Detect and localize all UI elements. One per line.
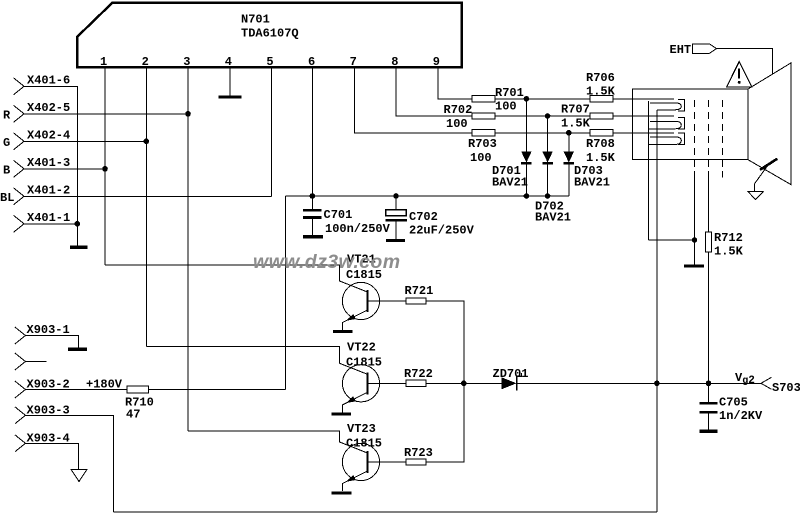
capacitor C702 (electrolytic) bbox=[386, 196, 475, 239]
resistor R710 bbox=[127, 386, 148, 393]
junction G1 link bbox=[692, 237, 698, 243]
resistor R708 bbox=[590, 130, 613, 136]
svg-text:R707: R707 bbox=[561, 103, 590, 117]
svg-text:8: 8 bbox=[391, 55, 398, 69]
junction rail/pin6 bbox=[310, 193, 316, 199]
junction Vg2/heater-b bbox=[654, 381, 660, 387]
resistor R712 bbox=[705, 232, 711, 252]
connector X903-4 bbox=[15, 435, 26, 452]
connector S703 bbox=[761, 377, 772, 389]
wire pin8 down bbox=[396, 67, 472, 116]
wire B row bbox=[24, 168, 105, 170]
wire row1 mid bbox=[495, 98, 590, 100]
wire R721 to bus bbox=[426, 301, 464, 383]
connector X903-3 bbox=[15, 407, 26, 424]
svg-text:6: 6 bbox=[308, 55, 315, 69]
svg-text:22uF/250V: 22uF/250V bbox=[409, 224, 475, 238]
svg-text:1.5K: 1.5K bbox=[586, 85, 616, 99]
transistor VT21 C1815 bbox=[342, 253, 382, 331]
svg-text:X401-2: X401-2 bbox=[27, 184, 70, 198]
svg-text:BAV21: BAV21 bbox=[535, 211, 571, 225]
CRT cathode gun 2 bbox=[648, 118, 684, 129]
wire row1 to CRT bbox=[613, 98, 674, 100]
anode contact slash bbox=[760, 159, 777, 170]
connector X401-1 bbox=[14, 215, 25, 232]
wire pin3 down bbox=[187, 67, 189, 431]
ground X401 bbox=[70, 246, 88, 249]
resistor R706 bbox=[590, 96, 613, 102]
CRT neck box bbox=[633, 89, 749, 160]
resistor R721 bbox=[406, 298, 426, 304]
grid focus dashed bbox=[721, 100, 723, 171]
wire pin5 down to BL bbox=[270, 67, 272, 196]
wire G1 bottom link bbox=[648, 239, 694, 241]
svg-text:C705: C705 bbox=[719, 396, 748, 410]
wire collector row VT23 bbox=[188, 431, 368, 453]
wire row3 mid bbox=[495, 132, 590, 134]
svg-text:BAV21: BAV21 bbox=[574, 176, 610, 190]
wire pin9 down bbox=[438, 67, 472, 99]
resistor R703 bbox=[472, 130, 495, 136]
junction Vg2/R712 bbox=[706, 381, 712, 387]
junction row1/D701 bbox=[524, 96, 530, 102]
ground C701 bbox=[303, 235, 323, 239]
junction X401-1 bbox=[75, 221, 81, 227]
junction bus/Vg2 bbox=[461, 381, 467, 387]
svg-text:1.5K: 1.5K bbox=[561, 117, 591, 131]
wire collector row VT22 bbox=[146, 347, 367, 375]
svg-text:VT22: VT22 bbox=[347, 341, 376, 355]
svg-text:EHT: EHT bbox=[670, 43, 692, 57]
svg-text:R703: R703 bbox=[468, 137, 497, 151]
svg-text:100: 100 bbox=[470, 151, 492, 165]
zener diode ZD701 bbox=[493, 367, 529, 390]
svg-text:X402-5: X402-5 bbox=[27, 101, 70, 115]
wire X401-1 row bbox=[24, 223, 77, 225]
wire pin6 down to +180V rail bbox=[311, 67, 313, 196]
wire G row bbox=[24, 140, 146, 142]
ground X903-1 bbox=[68, 348, 87, 351]
svg-text:1.5K: 1.5K bbox=[714, 245, 744, 259]
grid G1 dashed bbox=[694, 100, 696, 171]
svg-text:S703: S703 bbox=[772, 381, 800, 395]
CRT cathode gun 3 bbox=[648, 133, 684, 144]
svg-text:100: 100 bbox=[495, 100, 517, 114]
transistor VT22 C1815 bbox=[342, 341, 382, 413]
svg-text:C1815: C1815 bbox=[346, 437, 382, 451]
wire R722 to bus bbox=[426, 382, 464, 384]
svg-text:9: 9 bbox=[433, 55, 440, 69]
connector X401-3 bbox=[14, 160, 25, 177]
resistor R707 bbox=[590, 113, 613, 119]
svg-text:ZD701: ZD701 bbox=[493, 367, 529, 381]
ground G1 bbox=[684, 264, 704, 267]
ground anode (chassis) bbox=[748, 192, 763, 200]
connector X401-6 bbox=[14, 78, 25, 95]
warning triangle bbox=[727, 62, 752, 87]
svg-text:R721: R721 bbox=[405, 284, 434, 298]
svg-text:R723: R723 bbox=[404, 446, 433, 460]
wire anode ground bbox=[754, 166, 767, 192]
svg-text:3: 3 bbox=[183, 55, 190, 69]
wire +180V rail bbox=[286, 195, 569, 197]
connector unlabelled stub bbox=[15, 353, 26, 370]
capacitor C701 bbox=[303, 196, 390, 236]
resistor R701 bbox=[472, 96, 495, 102]
wire focus stub bbox=[721, 171, 723, 178]
connector EHT tag bbox=[670, 43, 717, 57]
svg-text:BAV21: BAV21 bbox=[492, 176, 528, 190]
wire VT23 base to R723 bbox=[368, 461, 407, 463]
junction R/pin3 bbox=[185, 111, 191, 117]
svg-text:C701: C701 bbox=[324, 208, 353, 222]
svg-text:X401-3: X401-3 bbox=[27, 156, 70, 170]
wire G1 solid bbox=[694, 171, 696, 265]
svg-text:R712: R712 bbox=[714, 231, 743, 245]
ground pin4 bbox=[218, 96, 241, 99]
wire X903-4 bbox=[25, 443, 78, 469]
ground X903-4 (chassis) bbox=[71, 470, 87, 482]
wire bottom rail bbox=[114, 511, 657, 513]
svg-text:VT23: VT23 bbox=[347, 422, 376, 436]
wire heater feed b bbox=[656, 110, 658, 512]
diode D703 BAV21 bbox=[564, 133, 610, 196]
wire X903-2 to R710 bbox=[25, 389, 127, 391]
connector X903-1 bbox=[15, 327, 26, 344]
wire pin4 stub bbox=[229, 67, 231, 96]
CRT cathode gun 1 bbox=[650, 100, 684, 111]
junction row3/D703 bbox=[566, 130, 572, 136]
connector X401-2 bbox=[14, 188, 25, 205]
diode D701 BAV21 bbox=[492, 99, 532, 196]
CRT funnel bbox=[748, 63, 791, 185]
svg-text:R: R bbox=[3, 108, 11, 122]
svg-text:N701: N701 bbox=[241, 13, 270, 27]
ground VT23 bbox=[332, 491, 352, 494]
svg-text:R706: R706 bbox=[586, 71, 615, 85]
svg-text:TDA6107Q: TDA6107Q bbox=[241, 27, 299, 41]
connector X903-2 bbox=[15, 381, 26, 398]
junction G/pin2 bbox=[144, 139, 150, 145]
junction rail/C702 bbox=[393, 193, 399, 199]
svg-text:R701: R701 bbox=[495, 86, 524, 100]
wire G2 solid to R712 bbox=[708, 171, 710, 232]
svg-text:C1815: C1815 bbox=[346, 356, 382, 370]
svg-text:R708: R708 bbox=[586, 137, 615, 151]
wire row2 to CRT bbox=[613, 115, 674, 117]
wire R710 to +180V vertical bbox=[148, 389, 285, 391]
svg-text:100n/250V: 100n/250V bbox=[325, 222, 391, 236]
resistor R722 bbox=[406, 380, 426, 386]
svg-text:R702: R702 bbox=[444, 103, 473, 117]
resistor R702 bbox=[472, 113, 495, 119]
svg-text:X401-6: X401-6 bbox=[27, 74, 70, 88]
ground VT22 bbox=[332, 412, 351, 415]
svg-text:C702: C702 bbox=[409, 210, 438, 224]
svg-text:2: 2 bbox=[142, 55, 149, 69]
grid G2 dashed bbox=[708, 100, 710, 171]
connector X402-5 bbox=[14, 105, 25, 122]
wire heater feed a bbox=[647, 101, 649, 240]
svg-text:G: G bbox=[3, 136, 10, 150]
wire R723 to bus bbox=[426, 383, 464, 462]
svg-text:X903-1: X903-1 bbox=[27, 323, 70, 337]
wire row3 to CRT bbox=[613, 132, 674, 134]
wire row2 mid bbox=[495, 115, 590, 117]
wire VT21 base to R721 bbox=[368, 300, 407, 302]
junction row2/D702 bbox=[545, 113, 551, 119]
ground VT21 bbox=[333, 330, 352, 333]
svg-text:B: B bbox=[3, 163, 10, 177]
svg-text:X401-1: X401-1 bbox=[27, 211, 70, 225]
svg-text:4: 4 bbox=[225, 55, 232, 69]
wire EHT to anode bbox=[717, 49, 773, 74]
wire stub bbox=[25, 361, 46, 363]
svg-text:www.dz3w.com: www.dz3w.com bbox=[253, 251, 400, 273]
junction B/pin1 bbox=[102, 166, 108, 172]
resistor R723 bbox=[406, 459, 426, 465]
wire R row bbox=[24, 113, 188, 115]
svg-text:100: 100 bbox=[446, 117, 468, 131]
wire X903-3 down bbox=[25, 415, 113, 512]
op-amp U1: IC N701 TDA6107Q body bbox=[77, 3, 461, 68]
svg-text:5: 5 bbox=[266, 55, 273, 69]
diode D702 BAV21 bbox=[535, 116, 571, 225]
wire VT22 base to R722 bbox=[368, 382, 407, 384]
wire collector row VT21 bbox=[105, 265, 368, 292]
svg-text:R722: R722 bbox=[404, 367, 433, 381]
svg-text:47: 47 bbox=[126, 408, 140, 422]
svg-text:1: 1 bbox=[100, 55, 107, 69]
svg-text:BL: BL bbox=[0, 191, 14, 205]
svg-text:X402-4: X402-4 bbox=[27, 129, 70, 143]
wire +180V vertical bbox=[285, 196, 287, 390]
junction rail/D701 bbox=[524, 193, 530, 199]
wire X401-6 bbox=[24, 86, 77, 246]
wire pin1 down bbox=[104, 67, 106, 265]
capacitor C705 bbox=[700, 383, 764, 429]
wire Vg2 row mid bbox=[517, 382, 761, 384]
ground C702 bbox=[386, 239, 405, 242]
svg-text:7: 7 bbox=[350, 55, 357, 69]
connector X402-4 bbox=[14, 133, 25, 150]
wire X903-1 bbox=[25, 336, 78, 348]
wire Vg2 row left bbox=[464, 382, 502, 384]
wire pin2 down bbox=[145, 67, 147, 347]
svg-text:1n/2KV: 1n/2KV bbox=[719, 409, 763, 423]
wire R712 down to Vg2 bbox=[708, 252, 710, 383]
wire pin7 down bbox=[355, 67, 472, 133]
transistor VT23 C1815 bbox=[342, 422, 382, 491]
junction rail/D702 bbox=[545, 193, 551, 199]
wire BL row bbox=[24, 195, 271, 197]
ground C705 bbox=[700, 430, 718, 433]
svg-text:1.5K: 1.5K bbox=[586, 151, 616, 165]
